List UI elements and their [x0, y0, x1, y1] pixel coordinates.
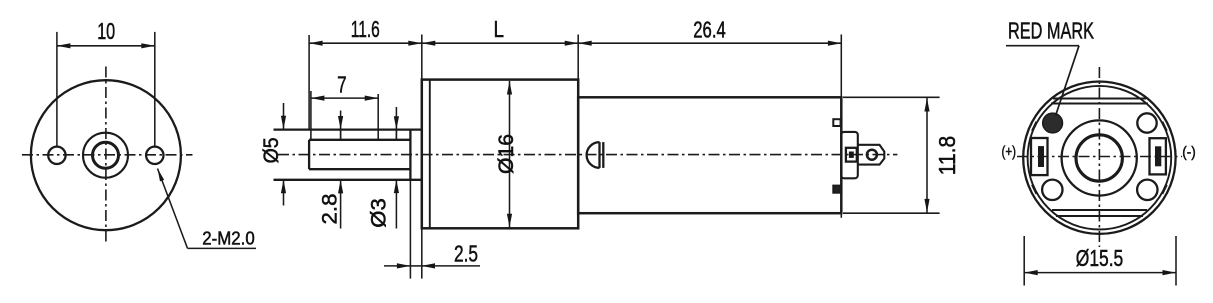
svg-text:Ø5: Ø5 [260, 137, 283, 163]
svg-text:Ø16: Ø16 [495, 134, 518, 174]
svg-text:11.6: 11.6 [351, 16, 380, 42]
svg-text:2-M2.0: 2-M2.0 [202, 228, 255, 248]
svg-text:(-): (-) [1182, 144, 1196, 161]
svg-text:2.8: 2.8 [319, 194, 342, 225]
svg-text:Ø3: Ø3 [368, 198, 391, 228]
svg-text:(+): (+) [1002, 143, 1017, 160]
svg-text:L: L [494, 16, 505, 42]
svg-text:RED MARK: RED MARK [1008, 18, 1094, 44]
svg-text:7: 7 [337, 72, 347, 98]
svg-text:10: 10 [97, 18, 115, 44]
svg-text:2.5: 2.5 [454, 240, 478, 266]
svg-text:11.8: 11.8 [934, 136, 960, 176]
svg-text:26.4: 26.4 [693, 17, 726, 43]
svg-text:Ø15.5: Ø15.5 [1076, 245, 1124, 271]
